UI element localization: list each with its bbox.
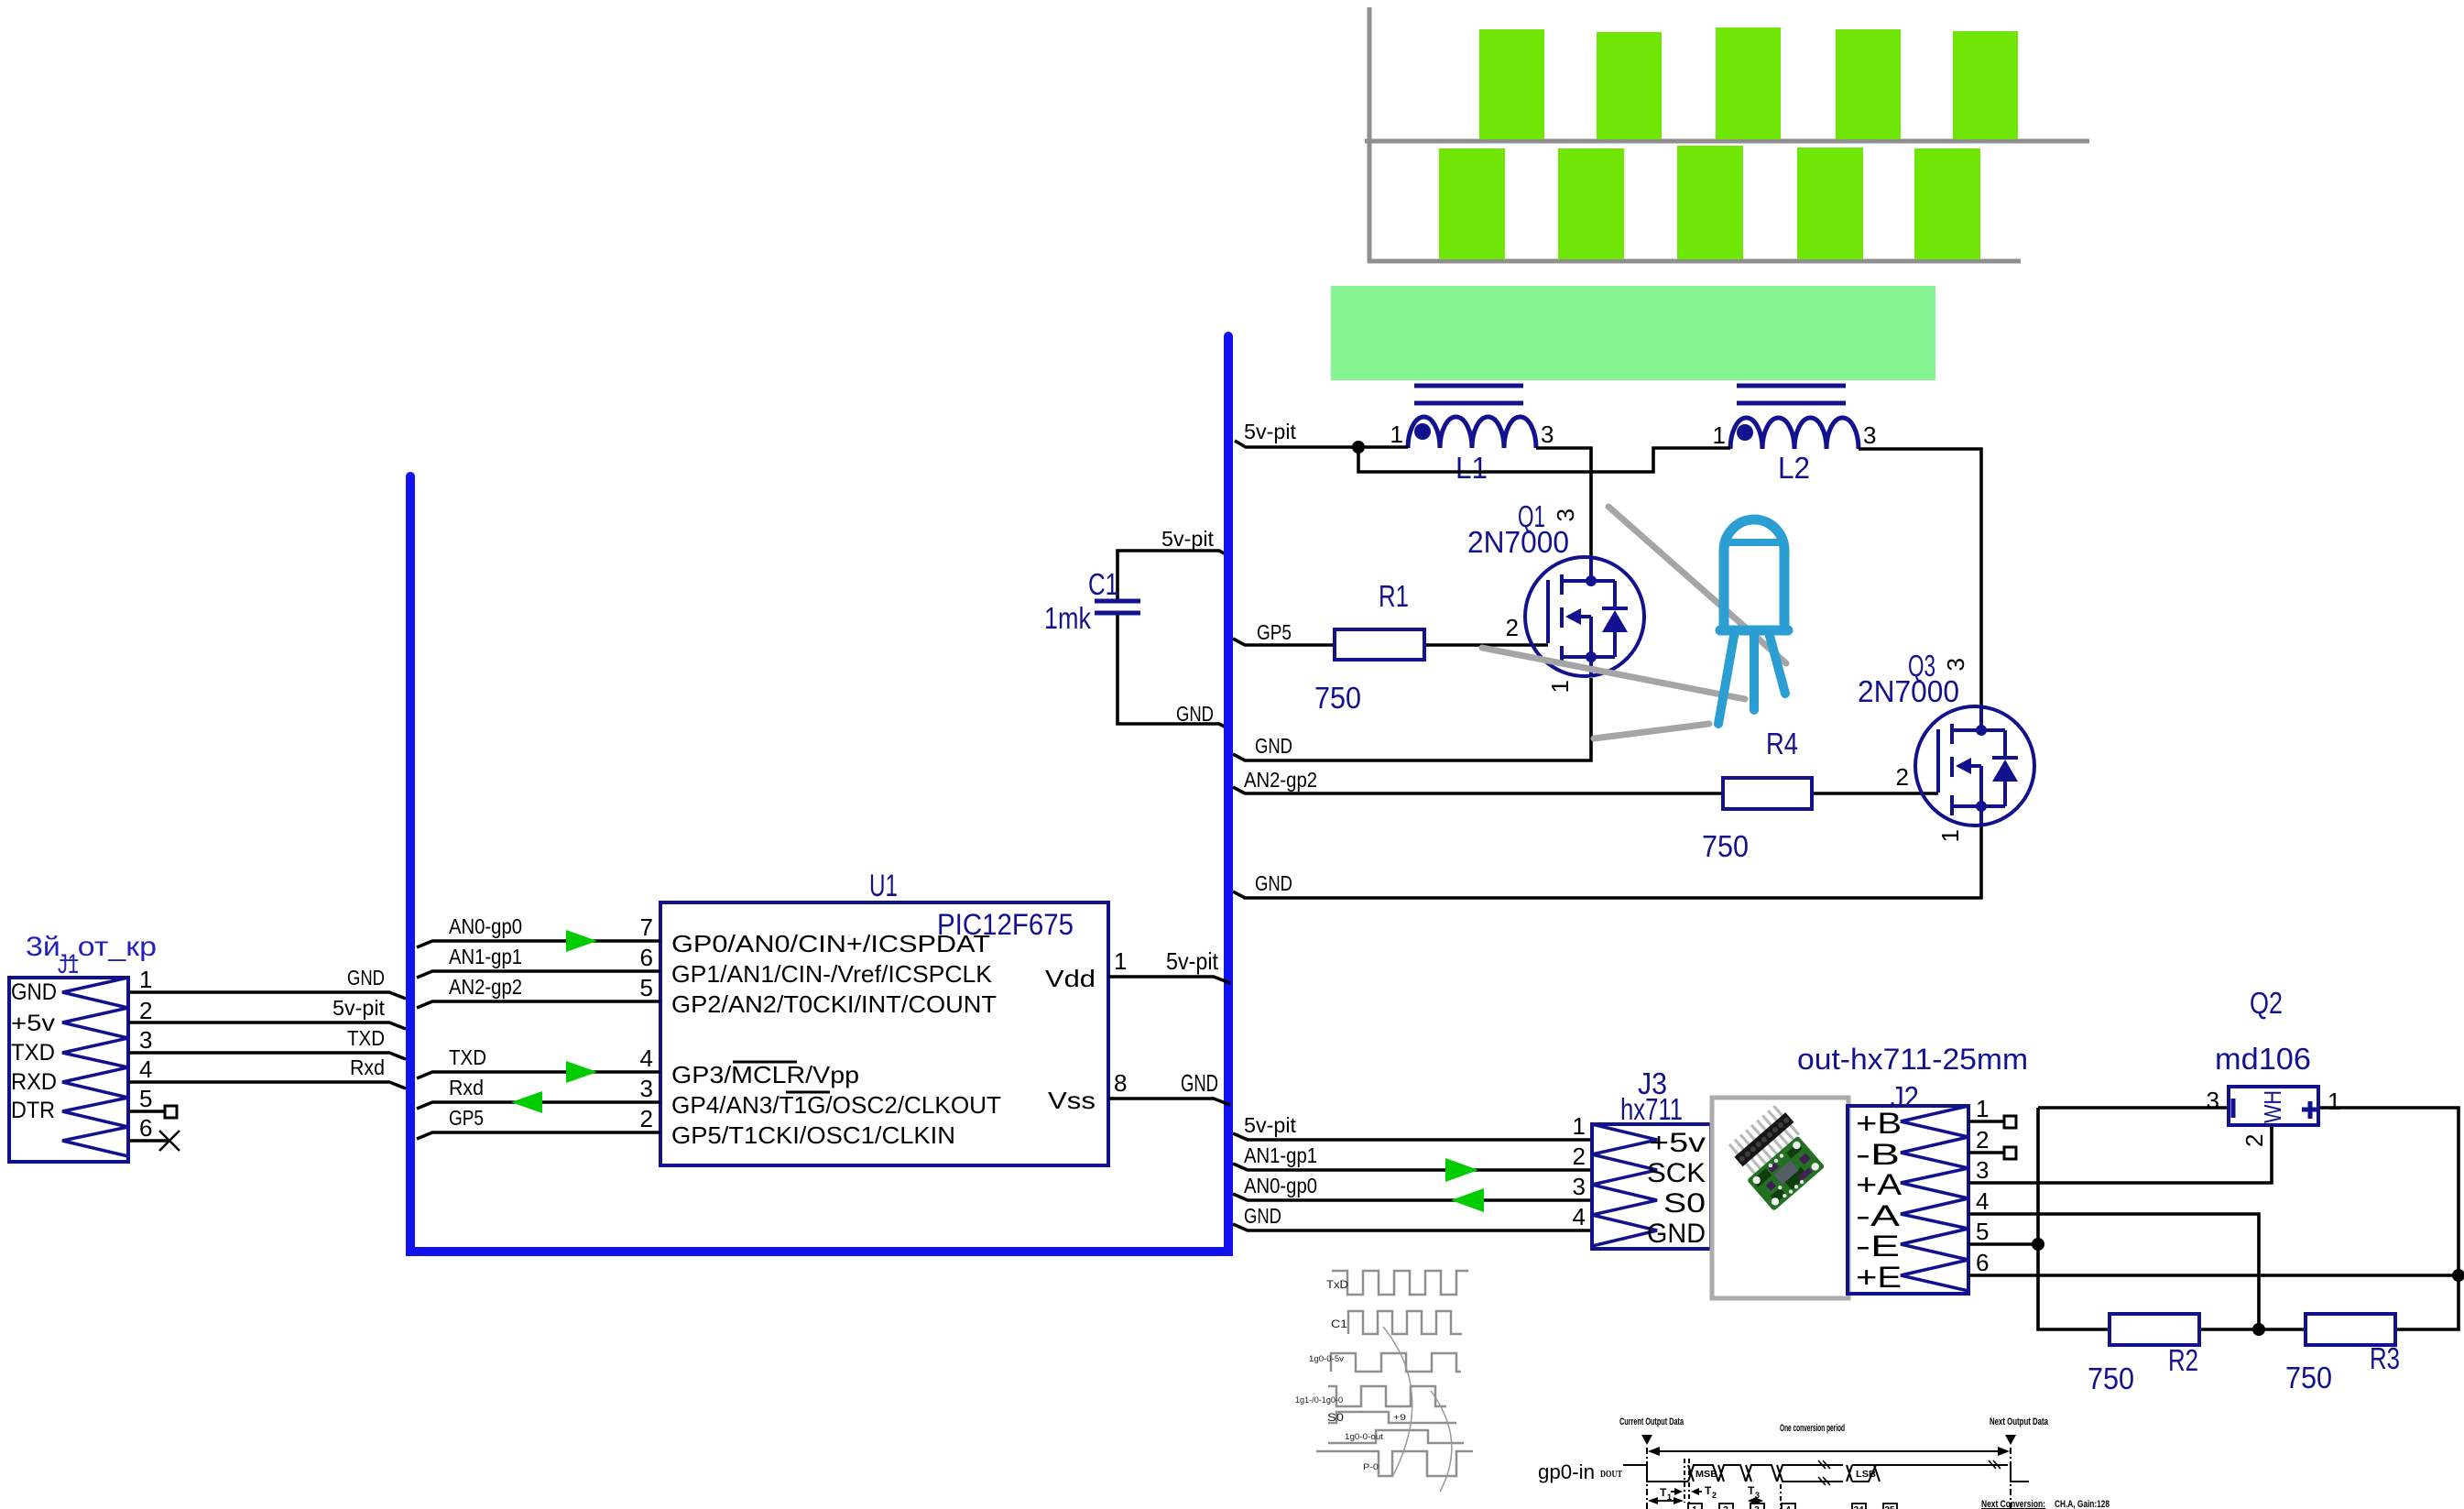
svg-text:DOUT: DOUT	[1600, 1470, 1622, 1480]
svg-text:GP2/AN2/T0CKI/INT/COUNT: GP2/AN2/T0CKI/INT/COUNT	[671, 990, 997, 1018]
bus	[410, 336, 1228, 1252]
svg-text:4: 4	[1785, 1505, 1791, 1509]
svg-text:gp0-in: gp0-in	[1538, 1460, 1595, 1483]
pin header photo	[1726, 1103, 1802, 1176]
gray annotation line	[1594, 724, 1709, 738]
photo transistor sketch	[1718, 519, 1788, 724]
svg-text:-B: -B	[1856, 1138, 1900, 1171]
svg-text:-E: -E	[1856, 1230, 1900, 1263]
svg-text:3: 3	[1863, 421, 1876, 449]
wire C1 branch top	[1118, 551, 1231, 601]
svg-text:Rxd: Rxd	[350, 1055, 385, 1079]
svg-text:1: 1	[1114, 947, 1127, 975]
green arrow AN0-gp0	[1451, 1188, 1484, 1212]
svg-text:GP0/AN0/CIN+/ICSPDAT: GP0/AN0/CIN+/ICSPDAT	[671, 930, 990, 957]
hx711 module photo box	[1712, 1098, 1848, 1298]
svg-text:R2: R2	[2168, 1343, 2198, 1377]
svg-text:+A: +A	[1856, 1168, 1903, 1201]
svg-text:GND: GND	[1255, 734, 1292, 758]
svg-text:SCK: SCK	[1647, 1158, 1706, 1188]
waveform green bars top row	[1479, 27, 2018, 139]
svg-text:2: 2	[1506, 614, 1519, 641]
svg-text:1mk: 1mk	[1044, 601, 1091, 635]
light green band	[1331, 286, 1935, 380]
svg-text:2: 2	[1573, 1143, 1586, 1170]
svg-text:TxD: TxD	[1326, 1278, 1348, 1291]
green arrow Rxd	[511, 1091, 542, 1113]
svg-text:out-hx711-25mm: out-hx711-25mm	[1797, 1043, 2028, 1076]
resistor R3	[2306, 1314, 2395, 1345]
svg-text:5: 5	[640, 974, 653, 1001]
svg-text:Next Conversion:: Next Conversion:	[1981, 1499, 2045, 1509]
svg-text:+E: +E	[1856, 1261, 1902, 1294]
svg-text:5: 5	[1976, 1218, 1989, 1245]
svg-text:750: 750	[2088, 1361, 2134, 1395]
svg-text:4: 4	[1573, 1203, 1586, 1230]
svg-text:-A: -A	[1856, 1199, 1901, 1232]
wire C1 branch bottom to GND	[1118, 613, 1231, 730]
svg-text:RXD: RXD	[11, 1069, 57, 1095]
svg-text:2: 2	[1712, 1491, 1717, 1500]
svg-text:Current Output Data: Current Output Data	[1619, 1416, 1684, 1427]
svg-text:1: 1	[1692, 1505, 1697, 1509]
svg-text:T: T	[1660, 1486, 1667, 1499]
svg-text:TXD: TXD	[11, 1040, 55, 1066]
svg-text:GND: GND	[347, 966, 385, 990]
J1 wires to bus	[128, 992, 406, 1151]
svg-text:C1: C1	[1331, 1318, 1347, 1330]
svg-text:6: 6	[640, 944, 653, 971]
svg-text:750: 750	[2285, 1361, 2332, 1394]
U1 left pin wires	[417, 941, 1230, 1139]
svg-text:3: 3	[1552, 508, 1579, 521]
svg-text:2: 2	[2240, 1134, 2268, 1147]
svg-text:+9: +9	[1393, 1413, 1406, 1422]
svg-text:GP1/AN1/CIN-/Vref/ICSPCLK: GP1/AN1/CIN-/Vref/ICSPCLK	[671, 960, 993, 988]
svg-text:3: 3	[1573, 1173, 1586, 1200]
svg-text:4: 4	[1976, 1187, 1989, 1215]
svg-text:L1: L1	[1456, 451, 1488, 485]
svg-text:GND: GND	[1647, 1219, 1706, 1249]
svg-text:24: 24	[1853, 1505, 1864, 1509]
svg-text:R4: R4	[1766, 727, 1798, 760]
svg-text:GND: GND	[1181, 1069, 1218, 1097]
svg-text:2: 2	[640, 1105, 653, 1132]
svg-text:R1: R1	[1379, 579, 1409, 613]
inductor L1	[1408, 386, 1536, 448]
svg-text:AN1-gp1: AN1-gp1	[449, 945, 522, 968]
gray annotation line	[1482, 507, 1786, 738]
svg-text:1: 1	[1713, 421, 1726, 449]
wire GP5 to R1 to Q1 gate	[1233, 639, 1335, 645]
svg-text:5v-pit: 5v-pit	[1244, 420, 1297, 443]
no-connect pads J2 pins 1,2	[2004, 1116, 2016, 1128]
svg-text:Rxd: Rxd	[449, 1076, 484, 1099]
resistor R1	[1335, 629, 1424, 660]
svg-text:2: 2	[1723, 1505, 1728, 1509]
svg-text:5v-pit: 5v-pit	[1161, 527, 1215, 551]
capacitor C1	[1095, 601, 1140, 613]
svg-text:6: 6	[139, 1114, 152, 1142]
svg-text:GP5: GP5	[1257, 620, 1292, 644]
gray annotation line	[1482, 648, 1745, 699]
resistor R4	[1723, 778, 1812, 809]
svg-text:4: 4	[640, 1044, 653, 1072]
T annotations	[1650, 1492, 1761, 1501]
connector J3 hx711	[1592, 1124, 1711, 1249]
svg-text:+5v: +5v	[1649, 1128, 1706, 1158]
svg-text:3: 3	[2207, 1087, 2219, 1114]
svg-text:AN1-gp1: AN1-gp1	[1244, 1143, 1317, 1167]
U1 right pin wires	[1108, 977, 1230, 983]
IC U1 PIC12F675	[660, 902, 1108, 1165]
svg-text:4: 4	[139, 1055, 152, 1083]
wire L1 pin3 to Q1 drain	[1536, 448, 1591, 561]
svg-text:1g0-0-out: 1g0-0-out	[1345, 1432, 1384, 1441]
svg-text:1: 1	[1667, 1493, 1672, 1502]
svg-text:S0: S0	[1327, 1411, 1344, 1424]
svg-text:6: 6	[1976, 1249, 1989, 1276]
green arrow AN0-gp0	[566, 930, 597, 952]
svg-text:R3: R3	[2370, 1341, 2400, 1375]
svg-text:S0: S0	[1663, 1188, 1706, 1219]
connector J2 out-hx711-25mm	[1848, 1106, 1968, 1294]
svg-text:GND: GND	[1176, 702, 1214, 726]
wire Q2 pin3 net	[2038, 1106, 2229, 1110]
wire Q2 pin1 to right vertical	[2318, 1108, 2459, 1329]
svg-text:5v-pit: 5v-pit	[1166, 947, 1219, 975]
transistor Q1 2N7000	[1506, 508, 1644, 693]
svg-text:1: 1	[1573, 1112, 1586, 1140]
wire GND to Q1 source	[1233, 678, 1591, 760]
svg-text:+5v: +5v	[11, 1011, 56, 1036]
svg-text:GND: GND	[1244, 1204, 1281, 1228]
svg-text:2: 2	[139, 997, 152, 1024]
svg-text:1: 1	[1390, 421, 1403, 448]
inductor L2	[1730, 386, 1859, 449]
gray timing sketch	[1316, 1271, 1473, 1476]
resistor R2	[2110, 1314, 2199, 1345]
wire AN2-gp2 to R4 to Q3 gate	[1233, 787, 1723, 793]
svg-text:Vss: Vss	[1048, 1087, 1096, 1114]
hx711 datasheet timing diagram	[1619, 1416, 2049, 1434]
svg-text:3й_от_кр: 3й_от_кр	[26, 932, 157, 962]
svg-text:3: 3	[1976, 1156, 1989, 1184]
connector J1	[9, 978, 128, 1162]
svg-text:3: 3	[139, 1026, 152, 1054]
svg-text:TXD: TXD	[347, 1026, 385, 1050]
svg-text:J1: J1	[58, 949, 79, 979]
svg-text:1: 1	[2328, 1088, 2340, 1115]
svg-text:AN2-gp2: AN2-gp2	[449, 975, 522, 999]
svg-text:Q2: Q2	[2250, 986, 2283, 1020]
junction dots	[2032, 1238, 2044, 1251]
svg-text:8: 8	[1114, 1069, 1127, 1097]
svg-text:3: 3	[640, 1075, 653, 1102]
svg-text:1g0-0-5v: 1g0-0-5v	[1309, 1354, 1345, 1363]
svg-text:T: T	[1748, 1484, 1755, 1497]
svg-text:U1: U1	[869, 869, 898, 903]
svg-text:MSB: MSB	[1695, 1470, 1717, 1480]
wire GND rail to Q3 source	[1233, 826, 1981, 898]
svg-text:AN0-gp0: AN0-gp0	[449, 914, 522, 938]
svg-text:AN0-gp0: AN0-gp0	[1244, 1174, 1317, 1197]
svg-text:2N7000: 2N7000	[1858, 674, 1959, 708]
svg-text:GND: GND	[1255, 871, 1292, 895]
svg-text:P-0: P-0	[1363, 1462, 1379, 1471]
svg-text:3: 3	[1541, 421, 1554, 448]
net labels right bus area	[1161, 420, 1317, 895]
hx711 pcb photo	[1747, 1135, 1825, 1211]
wire 5v-pit rail	[1118, 441, 1981, 898]
svg-text:L2: L2	[1778, 451, 1810, 485]
svg-text:GP5: GP5	[449, 1106, 484, 1130]
wire between R2 and R3	[2199, 1328, 2306, 1331]
svg-text:2N7000: 2N7000	[1467, 525, 1569, 559]
transistor Q3 2N7000	[1896, 658, 2034, 842]
DOUT waveform	[1623, 1465, 2029, 1482]
svg-text:5: 5	[139, 1085, 152, 1112]
motor Q2 md106	[2229, 1087, 2318, 1125]
PD_SCK pulse boxes	[1688, 1504, 1897, 1509]
svg-text:C1: C1	[1088, 567, 1118, 601]
svg-text:hx711: hx711	[1620, 1092, 1683, 1126]
svg-text:750: 750	[1702, 829, 1749, 863]
svg-text:AN2-gp2: AN2-gp2	[1244, 768, 1317, 792]
svg-text:md106: md106	[2215, 1042, 2311, 1076]
wire L2 pin3 to Q3 drain	[1859, 449, 1981, 706]
green arrow AN1-gp1	[1445, 1158, 1478, 1182]
svg-text:gp1-out: gp1-out	[1532, 1505, 1597, 1509]
svg-text:3: 3	[1755, 1491, 1760, 1500]
svg-text:Next Output Data: Next Output Data	[1990, 1416, 2049, 1427]
wire under L1 to L2 pin1	[1358, 447, 1730, 472]
svg-text:1: 1	[1976, 1095, 1989, 1122]
junction node on 5v-pit	[1352, 441, 1365, 454]
svg-text:GND: GND	[11, 979, 57, 1005]
svg-text:1: 1	[1546, 680, 1574, 693]
bus to J3 wires	[1233, 1133, 1592, 1230]
svg-text:One conversion period: One conversion period	[1780, 1423, 1845, 1434]
svg-text:T: T	[1705, 1484, 1712, 1497]
svg-text:750: 750	[1314, 681, 1361, 715]
svg-text:TXD: TXD	[449, 1045, 486, 1069]
svg-text:GP5/T1CKI/OSC1/CLKIN: GP5/T1CKI/OSC1/CLKIN	[671, 1121, 955, 1149]
svg-text:1: 1	[139, 966, 152, 993]
waveform chart axes	[1365, 7, 2089, 262]
svg-text:25: 25	[1884, 1505, 1895, 1509]
svg-text:3: 3	[1754, 1505, 1760, 1509]
svg-text:DTR: DTR	[11, 1098, 55, 1123]
svg-text:2: 2	[1976, 1126, 1989, 1154]
svg-text:LSB: LSB	[1856, 1470, 1876, 1480]
svg-text:CH.A, Gain:128: CH.A, Gain:128	[2055, 1499, 2110, 1509]
svg-text:7: 7	[640, 913, 653, 941]
svg-text:Vdd: Vdd	[1045, 965, 1096, 992]
svg-text:+B: +B	[1856, 1107, 1902, 1140]
svg-text:1g1-/0-1g0-0: 1g1-/0-1g0-0	[1295, 1395, 1343, 1405]
svg-text:WH: WH	[2259, 1090, 2286, 1123]
svg-text:5v-pit: 5v-pit	[333, 996, 386, 1020]
svg-text:5v-pit: 5v-pit	[1244, 1113, 1297, 1137]
J2 pin wires and right circuit	[1968, 1108, 2459, 1329]
waveform green bars bottom row	[1439, 146, 1980, 259]
svg-text:GP3/MCLR/Vpp: GP3/MCLR/Vpp	[671, 1061, 859, 1088]
waveform break marks	[1818, 1460, 2001, 1485]
green arrow TXD	[566, 1061, 597, 1083]
svg-text:GP4/AN3/T1G/OSC2/CLKOUT: GP4/AN3/T1G/OSC2/CLKOUT	[671, 1091, 1001, 1119]
